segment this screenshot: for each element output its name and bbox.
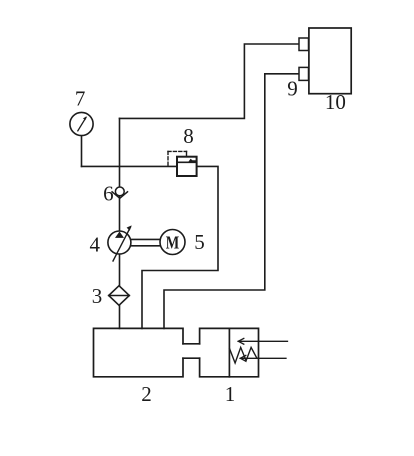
svg-text:6: 6 xyxy=(103,181,114,205)
wire gauge drop xyxy=(81,136,83,167)
wire A: unit9 upper port to main line xyxy=(120,44,300,118)
svg-text:9: 9 xyxy=(287,77,298,101)
valve 1 top pilot arrow xyxy=(238,340,287,342)
unit 10 box xyxy=(309,28,351,94)
filter 3 xyxy=(109,286,130,306)
svg-text:10: 10 xyxy=(325,90,346,114)
svg-text:4: 4 xyxy=(90,233,101,257)
valve 1 bottom pilot arrow xyxy=(240,357,286,359)
valve 8 body xyxy=(177,157,197,176)
svg-text:1: 1 xyxy=(225,382,236,406)
unit 9 lower port xyxy=(299,67,309,80)
wire B: unit9 lower port to tank xyxy=(164,74,299,329)
svg-text:M: M xyxy=(166,233,180,253)
gauge 7 xyxy=(70,112,93,135)
valve 1 body xyxy=(200,328,259,376)
svg-text:2: 2 xyxy=(141,382,152,406)
svg-text:5: 5 xyxy=(194,230,205,254)
unit 9 upper port xyxy=(299,38,309,51)
valve 1 divider xyxy=(228,328,230,376)
valve 8 internal mark xyxy=(188,159,196,163)
motor 5 xyxy=(160,230,185,255)
valve 1 spring xyxy=(230,347,257,363)
neck tank-valve xyxy=(183,343,200,345)
wire main vertical line xyxy=(119,118,121,328)
wire C: valve8 right to tank xyxy=(142,166,218,328)
check valve node 6 xyxy=(115,187,124,196)
wire gauge-to-valve8 horizontal xyxy=(82,165,178,167)
valve 8 dashed pilot box xyxy=(168,151,187,166)
pump 4 xyxy=(108,231,131,254)
shaft pump-motor xyxy=(131,238,160,240)
svg-text:7: 7 xyxy=(75,87,86,111)
tank 2 outline xyxy=(94,328,184,376)
svg-text:3: 3 xyxy=(92,284,103,308)
svg-text:8: 8 xyxy=(183,124,194,148)
